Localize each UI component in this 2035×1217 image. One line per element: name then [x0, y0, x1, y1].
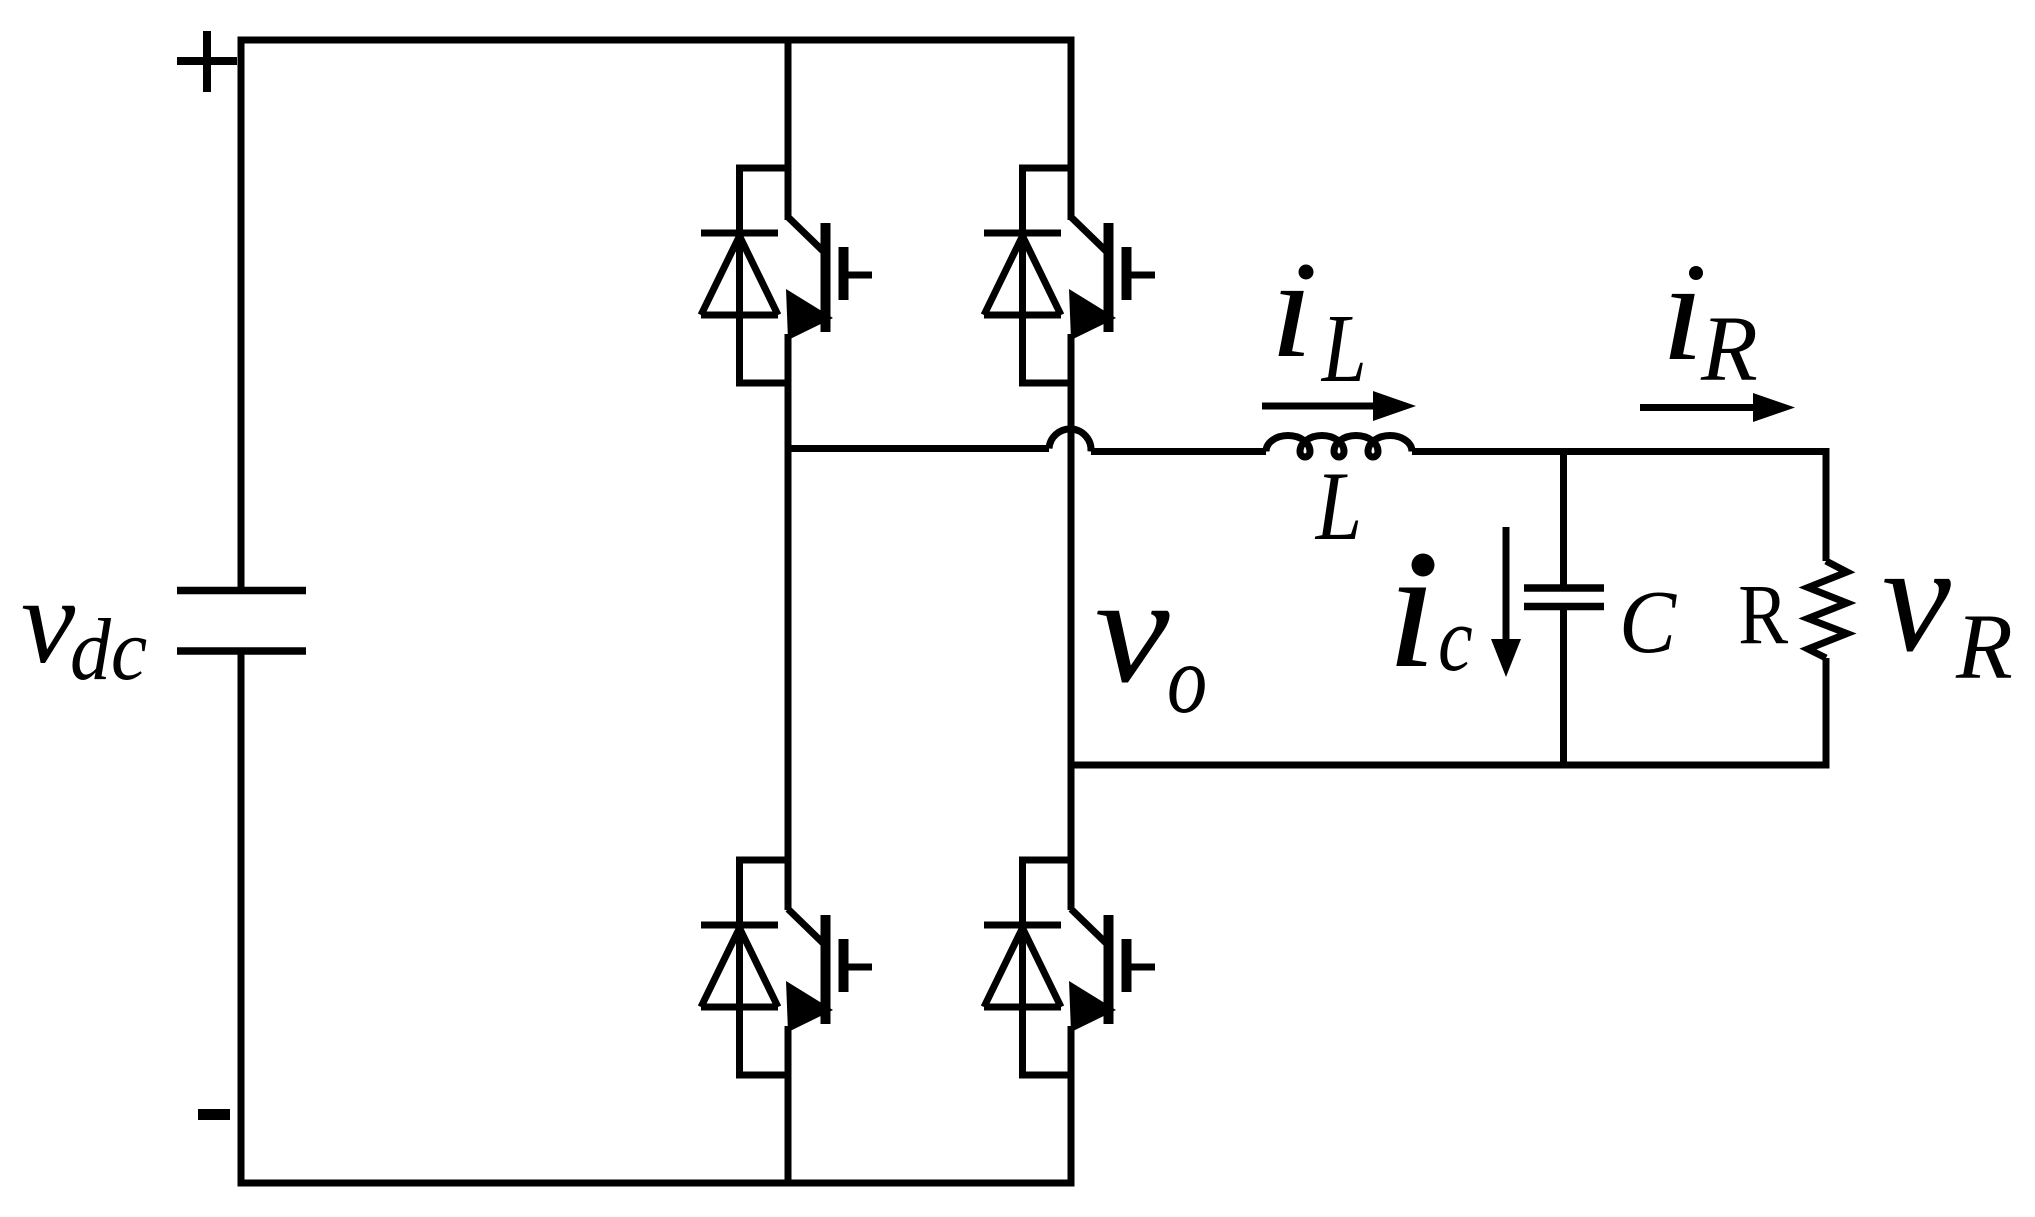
svg-text:c: c — [1438, 589, 1473, 690]
wire diode branch loop of Q2 — [1023, 165, 1072, 387]
wire crossover to inductor — [1091, 448, 1266, 455]
capacitor C (filter capacitor) — [1524, 588, 1604, 607]
svg-text:ı: ı — [1270, 230, 1313, 387]
diode D4 (anti-parallel, bottom-right) — [984, 925, 1061, 1007]
wire left leg upper (top rail to collector of Q1) — [785, 40, 792, 220]
wire capacitor C branch lower — [1560, 610, 1567, 765]
wire bottom output (right-leg midpoint to load bottom node) — [1071, 762, 1830, 769]
label i_c (capacitor current) — [1387, 514, 1473, 703]
wire capacitor C branch upper — [1560, 452, 1567, 585]
inductor L — [1266, 436, 1412, 458]
wire left rail lower — [238, 655, 245, 1184]
label v_R (load voltage) — [1882, 512, 2013, 699]
resistor R (load, zigzag) — [1808, 561, 1847, 658]
svg-text:L: L — [1320, 295, 1367, 403]
label i_R — [1661, 233, 1758, 401]
svg-text:o: o — [1167, 626, 1207, 734]
wire left leg lower (emitter of Q3 to bottom rail) — [785, 1026, 792, 1183]
diode D2 (anti-parallel, top-right) — [984, 233, 1061, 315]
wire right leg middle (emitter of Q2 to collector of Q4, node b) — [1068, 334, 1075, 910]
wire resistor branch upper — [1823, 448, 1830, 561]
arrow i_L (inductor current direction) — [1262, 391, 1416, 421]
diode D1 (anti-parallel, top-left) — [701, 233, 778, 315]
arrow i_c (capacitor current direction, downward) — [1491, 527, 1521, 677]
transistor Q1 (IGBT top-left) — [786, 217, 872, 340]
svg-text:R: R — [1700, 298, 1758, 401]
transistor Q2 (IGBT top-right) — [1069, 217, 1155, 340]
capacitor Vdc (DC-link source) — [177, 591, 306, 652]
wire right leg upper (top rail to collector of Q2) — [1068, 40, 1075, 220]
wire crossover hop over right leg (no connection) — [1049, 429, 1091, 452]
svg-text:v: v — [1882, 512, 1951, 684]
node + terminal of vdc — [177, 31, 237, 92]
node - terminal of vdc — [198, 1109, 230, 1120]
wire resistor branch lower — [1823, 658, 1830, 765]
svg-text:v: v — [21, 554, 76, 689]
wire top rail (+ bus) — [238, 37, 1075, 44]
wire diode branch loop of Q4 — [1023, 857, 1072, 1079]
svg-text:ı: ı — [1387, 514, 1438, 703]
svg-text:C: C — [1619, 572, 1677, 671]
wire diode branch loop of Q3 — [740, 857, 789, 1079]
wire inductor to load top node — [1412, 448, 1830, 455]
label i_L — [1270, 230, 1367, 402]
arrow i_R (load current direction) — [1640, 393, 1795, 422]
svg-text:R: R — [1738, 567, 1788, 662]
label C (capacitor value) — [1619, 572, 1677, 671]
diode D3 (anti-parallel, bottom-left) — [701, 925, 778, 1007]
svg-text:L: L — [1314, 450, 1362, 560]
svg-text:dc: dc — [70, 601, 147, 698]
wire bottom rail (- bus) — [238, 1180, 1075, 1187]
label v_o (inverter output voltage) — [1095, 545, 1207, 734]
wire diode branch loop of Q1 — [740, 165, 789, 387]
svg-text:R: R — [1955, 596, 2013, 699]
wire left rail upper — [238, 40, 245, 587]
label R (resistor value) — [1738, 567, 1788, 662]
wire right leg lower (emitter of Q4 to bottom rail) — [1068, 1026, 1075, 1183]
transistor Q4 (IGBT bottom-right) — [1069, 909, 1155, 1032]
svg-text:v: v — [1095, 545, 1170, 714]
wire left leg middle (emitter of Q1 to collector of Q3, node a) — [785, 334, 792, 910]
transistor Q3 (IGBT bottom-left) — [786, 909, 872, 1032]
svg-text:ı: ı — [1661, 233, 1704, 390]
label v_dc — [21, 554, 147, 699]
label L (inductor value) — [1314, 450, 1362, 560]
wire left-leg midpoint to crossover — [788, 445, 1049, 452]
